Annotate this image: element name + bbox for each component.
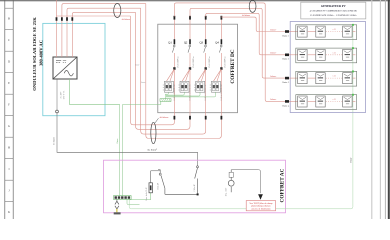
- onduleur enclosure box (cyan): [43, 23, 105, 115]
- disconnect switch Q3: [204, 16, 207, 120]
- svg-text:F: F: [8, 103, 10, 107]
- wire DC feed top run 1: [62, 4, 146, 18]
- PV panel string1-2: [316, 26, 325, 37]
- wire dashed continuation string 2: [326, 54, 342, 56]
- wire panel link string 2: [308, 54, 316, 56]
- svg-text:Vers TGBT (40m du champ: Vers TGBT (40m du champ: [249, 202, 272, 205]
- junction dot branch 3: [205, 67, 207, 70]
- wire panel link string 4: [308, 100, 316, 102]
- svg-text:4x2x6mm²: 4x2x6mm²: [159, 116, 168, 119]
- wire AC main run to coffret AC: [57, 113, 198, 166]
- svg-text:C: C: [8, 38, 10, 42]
- wires inverter DC inputs: [57, 21, 73, 57]
- frame fold line 3: [384, 0, 386, 219]
- wire DC feed top run 4: [57, 15, 131, 17]
- pin marks F3: [194, 85, 195, 90]
- svg-text:PARAFOUDRE DC: PARAFOUDRE DC: [204, 83, 207, 100]
- wire connector to row 1: [289, 31, 298, 33]
- junction dot branch 1: [173, 67, 175, 70]
- wire string 1 run to PV: [174, 3, 285, 102]
- ground riser 2 to coffret AC: [122, 104, 124, 195]
- svg-text:x 13: x 13: [333, 99, 336, 101]
- PV panel string4-1: [298, 96, 307, 107]
- wire last panel stub string 4: [353, 100, 356, 102]
- wire dashed continuation string 3: [326, 77, 342, 79]
- ground dot string 4: [352, 94, 354, 96]
- string 4 connector: [285, 100, 289, 103]
- PV panel string3-2: [316, 73, 325, 84]
- arrow to TGBT (down triangle): [258, 194, 263, 200]
- svg-text:PARAFOUDRE DC: PARAFOUDRE DC: [220, 83, 223, 100]
- ground dot string 2: [352, 47, 354, 49]
- wire connector to row 3: [289, 77, 298, 79]
- earth terminal bar coffret AC: [114, 196, 132, 200]
- PV panel string1-3: [343, 26, 352, 37]
- svg-text:COFFRET DC: COFFRET DC: [230, 49, 236, 83]
- cable marker ellipse E1: [114, 4, 121, 18]
- pin marks F4: [210, 85, 211, 90]
- cable marker ellipse E3: [151, 122, 156, 143]
- leader+label 4x2x6mm2 at E3: [155, 116, 169, 123]
- surge protector DC F1: [164, 81, 173, 92]
- wire panel link string 1: [308, 31, 316, 33]
- coffret AC enclosure box (magenta): [104, 160, 286, 213]
- wire last panel stub string 2: [353, 54, 356, 56]
- svg-text:Q4: Q4: [215, 41, 219, 45]
- wire string 3 run to PV: [206, 13, 285, 55]
- svg-text:x 13: x 13: [333, 76, 336, 78]
- ground wire bar to surge protector AC: [129, 193, 150, 200]
- PV panel string2-3: [343, 49, 352, 60]
- svg-text:2x6mm²: 2x6mm²: [270, 75, 277, 78]
- wire dashed continuation string 4: [326, 100, 342, 102]
- svg-text:16mm²: 16mm²: [116, 138, 119, 144]
- wire DC string riser exits sheet top: [56, 0, 58, 17]
- cable marker ellipse E2: [249, 0, 256, 12]
- ground wire from F1: [166, 92, 169, 94]
- PV panel string2-2: [316, 49, 325, 60]
- ground wire from F2: [166, 92, 184, 95]
- ground riser 1 to coffret AC: [119, 104, 121, 195]
- svg-text:16mm²: 16mm²: [350, 157, 353, 163]
- svg-text:4x2x6mm²: 4x2x6mm²: [122, 18, 131, 21]
- PV panel string3-1: [298, 73, 307, 84]
- string 3 connector: [285, 77, 289, 80]
- PV panel string3-3: [343, 73, 352, 84]
- svg-text:15 PANNEAUX 550Wc - 1 PANNEAU: 15 PANNEAUX 550Wc - 1 PANNEAU 550Wc: [310, 14, 357, 17]
- meter / disjoncteur M1: [228, 170, 234, 193]
- svg-text:AC 400V: AC 400V: [59, 91, 62, 99]
- svg-text:enterrée de distribution: enterrée de distribution: [251, 209, 270, 211]
- note box vers TGBT (red): [246, 201, 275, 211]
- PV panel string2-1: [298, 49, 307, 60]
- svg-text:Disj. Q 4P: Disj. Q 4P: [226, 187, 228, 196]
- svg-text:2x6mm²: 2x6mm²: [270, 52, 277, 55]
- svg-text:Chaine 2: Chaine 2: [282, 59, 289, 61]
- svg-text:I: I: [8, 167, 9, 171]
- junction dot branch 4: [220, 67, 222, 70]
- wires tap to surge protector F4: [213, 69, 221, 81]
- string 2 row box: [296, 48, 357, 63]
- svg-text:COFFRET AC: COFFRET AC: [279, 168, 285, 202]
- wires DC riser bundle (left): [130, 4, 221, 139]
- svg-text:4 CHAINES PV COMPOSEES CHACUNE: 4 CHAINES PV COMPOSEES CHACUNE DE: [310, 9, 358, 12]
- svg-text:Chaine 3: Chaine 3: [282, 82, 289, 84]
- svg-text:6mm²: 6mm²: [135, 64, 140, 67]
- wire DC feed top run 2: [67, 8, 141, 17]
- inverter U1 (DC/AC converter): [53, 57, 77, 79]
- PV panel string4-2: [316, 96, 325, 107]
- wires tap to surge protector F1: [166, 69, 174, 81]
- string 1 row box: [296, 25, 357, 40]
- disconnect switch Q4: [219, 16, 222, 120]
- wires tap to surge protector F3: [198, 69, 206, 81]
- pin marks F1: [163, 85, 164, 90]
- ground wire from inverter: [70, 79, 120, 104]
- wire last panel stub string 3: [353, 77, 356, 79]
- svg-text:E: E: [8, 81, 10, 85]
- ground wire stub below bar: [127, 199, 140, 204]
- svg-text:x 13: x 13: [333, 52, 336, 54]
- surge protector DC F4: [211, 81, 220, 92]
- svg-text:C63a 4P: C63a 4P: [158, 182, 160, 190]
- disconnect switch Q1: [172, 16, 175, 120]
- ground bus PV frames: [129, 25, 353, 209]
- frame fold line 1: [371, 0, 373, 219]
- string 1 connector: [285, 30, 289, 33]
- wire connector to row 4: [289, 100, 298, 102]
- note box generateur PV: [301, 2, 366, 19]
- svg-text:Q2: Q2: [184, 41, 188, 45]
- wire link bottom of coffret AC: [165, 193, 198, 195]
- ground bus drop to earth bar: [164, 94, 167, 99]
- wires tap to surge protector F2: [182, 69, 190, 81]
- connector circle AC output: [56, 110, 59, 113]
- wire connector to row 2: [289, 54, 298, 56]
- wire last panel stub string 1: [353, 31, 356, 33]
- svg-text:Chaine 1: Chaine 1: [282, 35, 289, 37]
- svg-text:Q1: Q1: [168, 41, 172, 45]
- svg-text:5G 6mm²: 5G 6mm²: [52, 137, 55, 145]
- svg-text:C63a 4P: C63a 4P: [194, 184, 196, 192]
- junction square main: [197, 193, 199, 195]
- pin marks F2: [178, 85, 179, 90]
- surge protector DC F3: [196, 81, 205, 92]
- sheet top border: [0, 0, 390, 2]
- svg-text:6mm²: 6mm²: [141, 81, 146, 84]
- label AC output (micro): [59, 90, 65, 100]
- svg-text:PARAFOUDRE DC: PARAFOUDRE DC: [188, 83, 191, 100]
- micro cable labels on risers: [135, 64, 146, 85]
- PV generator outer box (blue): [290, 22, 365, 113]
- svg-text:Q3: Q3: [200, 41, 204, 45]
- svg-text:Para. Indir 12 4P: Para. Indir 12 4P: [146, 186, 148, 200]
- PV panel string4-3: [343, 96, 352, 107]
- ground dot string 3: [352, 71, 354, 73]
- wire to export arrow: [231, 170, 260, 194]
- svg-text:25A 1000Vcc: 25A 1000Vcc: [224, 56, 227, 68]
- svg-text:PARAFOUDRE DC: PARAFOUDRE DC: [173, 83, 176, 100]
- circuit breaker Q6 (C63a 4P): [158, 170, 165, 195]
- surge protector AC (parafoudre): [149, 171, 160, 193]
- disconnect switch Q2: [188, 16, 191, 120]
- wire DC feed top run 3: [72, 12, 135, 17]
- svg-text:3PH+N+PE: 3PH+N+PE: [64, 90, 66, 100]
- ground wire from F4: [166, 92, 216, 97]
- svg-text:x 13: x 13: [333, 29, 336, 31]
- surge protector DC F2: [180, 81, 189, 92]
- terminal squares at inverter DC inputs: [56, 17, 74, 21]
- junction dot branch 2: [189, 67, 191, 70]
- svg-text:25A 1000Vcc: 25A 1000Vcc: [192, 56, 195, 68]
- left ruler column with row letters: [5, 0, 13, 219]
- svg-text:25A 1000Vcc: 25A 1000Vcc: [177, 56, 180, 68]
- wire string 4 run to PV: [221, 17, 285, 32]
- svg-text:photovoltaique) liaison: photovoltaique) liaison: [251, 205, 270, 208]
- earth bar in coffret DC: [160, 99, 171, 102]
- svg-text:B: B: [8, 17, 10, 21]
- circuit breaker Q5 (C63a 4P): [195, 166, 199, 194]
- PV panel string1-1: [298, 26, 307, 37]
- svg-text:25A 1000Vcc: 25A 1000Vcc: [208, 56, 211, 68]
- svg-text:GENERATEUR PV: GENERATEUR PV: [321, 4, 347, 8]
- sheet right border: [388, 0, 390, 219]
- svg-text:ONDULEUR SOLAR EDGE SE 25K: ONDULEUR SOLAR EDGE SE 25K: [32, 17, 37, 91]
- svg-text:2x6mm²: 2x6mm²: [270, 98, 277, 101]
- string 2 connector: [285, 54, 289, 57]
- svg-text:2x6mm²: 2x6mm²: [270, 28, 277, 31]
- wire panel link string 3: [308, 77, 316, 79]
- svg-text:380-400V AC: 380-400V AC: [39, 40, 44, 66]
- string 3 row box: [296, 71, 357, 86]
- svg-text:4x2x6mm²: 4x2x6mm²: [242, 14, 251, 17]
- svg-text:Chaine 4: Chaine 4: [282, 105, 289, 107]
- ground (earth) symbol: [114, 199, 121, 214]
- ground wire exit coffret DC: [123, 101, 161, 104]
- wire string 2 run to PV: [190, 8, 285, 78]
- frame fold line 2: [379, 0, 381, 219]
- coffret DC enclosure box: [158, 24, 238, 113]
- wire inverter AC output stub: [56, 79, 58, 110]
- ground dot string 1: [352, 24, 354, 26]
- svg-text:5G 6mm²: 5G 6mm²: [147, 149, 157, 152]
- ground wire from F3: [166, 92, 200, 96]
- string 4 row box: [296, 95, 357, 110]
- wire dashed continuation string 1: [326, 31, 342, 33]
